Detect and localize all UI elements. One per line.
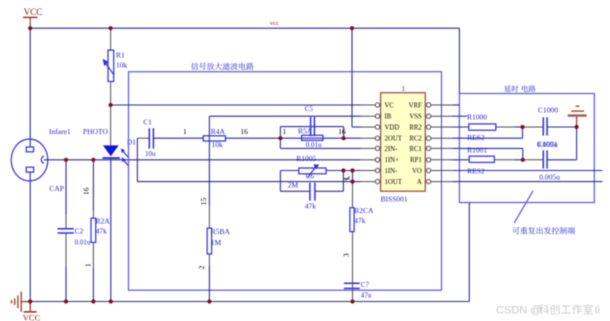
svg-text:C5: C5 bbox=[305, 105, 314, 113]
svg-text:47k: 47k bbox=[354, 216, 366, 225]
svg-text:47k: 47k bbox=[96, 227, 108, 236]
svg-text:Ii: Ii bbox=[595, 305, 601, 317]
svg-text:C1: C1 bbox=[143, 117, 152, 126]
svg-text:R2A: R2A bbox=[96, 216, 111, 225]
svg-text:1: 1 bbox=[402, 85, 406, 93]
svg-text:16: 16 bbox=[82, 187, 91, 195]
svg-text:RR2: RR2 bbox=[409, 124, 422, 131]
svg-text:1OUT: 1OUT bbox=[385, 179, 403, 186]
svg-text:CAP: CAP bbox=[49, 184, 64, 193]
svg-text:2: 2 bbox=[197, 265, 206, 269]
svg-text:RC1: RC1 bbox=[409, 146, 421, 153]
svg-text:C6: C6 bbox=[306, 173, 315, 181]
svg-text:Infare1: Infare1 bbox=[49, 127, 71, 136]
svg-text:BISS001: BISS001 bbox=[381, 194, 408, 203]
svg-text:R4A: R4A bbox=[211, 127, 226, 136]
svg-text:1: 1 bbox=[83, 263, 92, 267]
svg-text:R5A: R5A bbox=[298, 126, 313, 135]
svg-text:VCC: VCC bbox=[23, 313, 41, 321]
svg-text:VCC: VCC bbox=[24, 7, 43, 17]
svg-text:CSDN @: CSDN @ bbox=[496, 305, 541, 317]
svg-text:47k: 47k bbox=[305, 202, 317, 211]
svg-text:A: A bbox=[417, 179, 422, 186]
svg-text:VO: VO bbox=[412, 168, 422, 175]
svg-text:1IN+: 1IN+ bbox=[385, 157, 400, 164]
svg-text:2IN-: 2IN- bbox=[385, 146, 399, 153]
svg-text:RP1: RP1 bbox=[410, 157, 422, 164]
svg-text:16: 16 bbox=[338, 127, 346, 136]
svg-text:2OUT: 2OUT bbox=[385, 136, 403, 143]
svg-text:10u: 10u bbox=[145, 150, 156, 158]
svg-text:1IN-: 1IN- bbox=[385, 168, 399, 175]
svg-text:VSS: VSS bbox=[409, 114, 422, 121]
svg-text:C2: C2 bbox=[75, 227, 84, 236]
svg-text:47u: 47u bbox=[361, 291, 372, 299]
svg-text:C1001: C1001 bbox=[538, 140, 558, 149]
svg-text:R1001: R1001 bbox=[467, 145, 487, 154]
svg-text:15: 15 bbox=[199, 197, 208, 205]
svg-text:0.01u: 0.01u bbox=[75, 238, 91, 246]
svg-text:VRF: VRF bbox=[409, 102, 422, 109]
svg-text:16: 16 bbox=[240, 127, 248, 136]
svg-text:R2CA: R2CA bbox=[354, 206, 374, 215]
svg-text:C7: C7 bbox=[361, 281, 370, 289]
svg-text:R1000: R1000 bbox=[467, 113, 487, 122]
svg-text:10k: 10k bbox=[212, 140, 224, 149]
svg-text:3: 3 bbox=[342, 253, 351, 257]
svg-text:C1000: C1000 bbox=[538, 106, 558, 115]
svg-text:0.005u: 0.005u bbox=[539, 172, 560, 181]
svg-text:R1005: R1005 bbox=[296, 154, 316, 163]
svg-text:1: 1 bbox=[283, 127, 287, 136]
svg-text:1M: 1M bbox=[211, 238, 222, 247]
svg-text:R1: R1 bbox=[116, 50, 125, 59]
svg-text:VDD: VDD bbox=[385, 124, 400, 131]
svg-text:R5BA: R5BA bbox=[211, 227, 231, 236]
svg-text:RC2: RC2 bbox=[409, 136, 422, 143]
svg-text:vcc: vcc bbox=[270, 20, 279, 27]
svg-text:IB: IB bbox=[385, 114, 392, 121]
svg-text:1: 1 bbox=[183, 127, 187, 136]
svg-text:VC: VC bbox=[385, 102, 395, 109]
svg-text:10k: 10k bbox=[116, 61, 128, 70]
svg-text:PHOTO: PHOTO bbox=[83, 127, 108, 136]
